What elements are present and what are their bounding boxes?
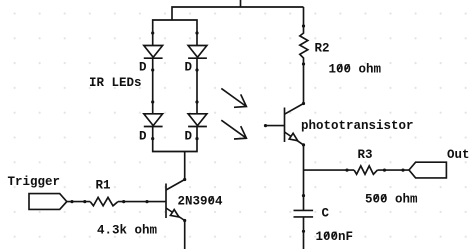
wire: top supply rail to R2	[172, 7, 304, 20]
svg-text:100 ohm: 100 ohm	[329, 63, 382, 77]
light arrow 1 (LED light toward phototransistor)	[221, 88, 246, 107]
svg-text:R1: R1	[96, 179, 111, 193]
svg-text:D: D	[139, 130, 147, 144]
connector flag Trigger	[29, 194, 67, 210]
svg-text:R2: R2	[315, 42, 330, 56]
pin dots: Trigger connector and resistor R1 leads	[70, 200, 125, 203]
wire: output node branch to R3	[304, 169, 355, 171]
pin dots: transistor Q1 base, collector, emitter	[145, 178, 186, 222]
resistor R1	[90, 197, 118, 205]
resistor R2 (with leads from top rail to phototransistor collector)	[300, 7, 308, 104]
svg-text:D: D	[139, 61, 147, 75]
connector flag Out	[409, 162, 446, 178]
wire: LED rail down to Q1 collector	[184, 152, 186, 180]
wire: column 1 between diodes	[152, 58, 154, 114]
wire: Trigger flag to R1	[67, 201, 90, 203]
wire: Q2 emitter down to capacitor	[303, 145, 305, 211]
svg-text:4.3k ohm: 4.3k ohm	[97, 224, 158, 238]
transistor Q1 2N3904	[166, 180, 185, 221]
svg-text:D: D	[185, 130, 193, 144]
svg-text:R3: R3	[358, 148, 373, 162]
svg-text:C: C	[322, 207, 330, 221]
svg-text:100nF: 100nF	[316, 230, 354, 244]
wire: R1 to Q1 base	[118, 201, 166, 203]
svg-text:2N3904: 2N3904	[178, 195, 224, 209]
resistor R3	[354, 166, 377, 174]
slashed-zero marks over the 0 glyphs	[209, 64, 386, 238]
wire: column 2 between diodes	[196, 58, 198, 114]
wire: LED branch bottom rail	[153, 127, 197, 152]
diode D1 (IR LED, row 1 col 1)	[144, 46, 163, 59]
pin dots: phototransistor Q2 base, collector, emitter	[264, 102, 305, 147]
wire: R3 to Out connector	[377, 169, 409, 171]
svg-text:500 ohm: 500 ohm	[365, 193, 418, 207]
light arrow 2 (LED light toward phototransistor)	[221, 120, 246, 139]
svg-text:D: D	[185, 61, 193, 75]
wire: power stub to top edge (net V+)	[240, 0, 242, 7]
capacitor C	[294, 210, 314, 249]
diode D4 (IR LED, row 2 col 2)	[188, 114, 207, 127]
svg-text:Out: Out	[447, 148, 470, 162]
diode D2 (IR LED, row 1 col 2)	[188, 46, 207, 59]
pin dots: resistor R3 leads	[345, 169, 386, 172]
pin dots: diode D2 leads	[195, 31, 198, 71]
phototransistor Q2	[266, 104, 304, 145]
wire: Q1 emitter to bottom edge	[184, 221, 186, 249]
diode D3 (IR LED, row 2 col 1)	[144, 114, 163, 127]
pin dots: diode D1 leads	[151, 31, 154, 71]
svg-text:phototransistor: phototransistor	[301, 119, 414, 133]
svg-text:IR LEDs: IR LEDs	[89, 76, 142, 90]
pin dots: capacitor C leads	[302, 194, 305, 233]
pin dots: diode D3 leads	[151, 100, 154, 140]
svg-text:Trigger: Trigger	[8, 175, 61, 189]
pin dots: resistor R2 leads	[302, 24, 305, 65]
wire: LED branch top rail	[153, 20, 197, 46]
pin dots: diode D4 leads	[195, 100, 198, 140]
pin dot: Out connector	[401, 169, 404, 172]
